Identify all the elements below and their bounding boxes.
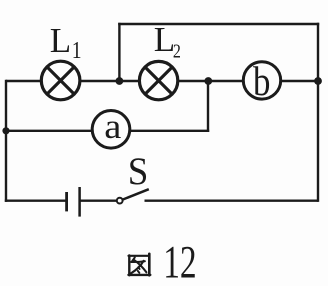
lamp L1: cross xyxy=(47,67,74,94)
meter b: circle xyxy=(243,62,280,99)
lamp L2: circle xyxy=(139,61,177,99)
wire: ammeter branch horizontal xyxy=(6,130,209,132)
switch S: lever arm xyxy=(123,189,149,199)
svg-text:a: a xyxy=(104,107,121,146)
wire: main horizontal (through L1, L2, b) xyxy=(6,80,318,82)
battery: short plate (negative) xyxy=(65,192,68,211)
meter a: circle xyxy=(92,111,130,149)
svg-text:b: b xyxy=(253,59,270,104)
svg-text:L: L xyxy=(154,20,175,59)
switch S: pivot open circle xyxy=(117,198,123,204)
svg-text:1: 1 xyxy=(72,36,82,63)
wire: battery to switch pivot xyxy=(80,199,117,201)
svg-text:S: S xyxy=(128,150,149,193)
junction dot: node at top-loop tap (left of L2) xyxy=(116,77,124,85)
caption: hanzi TU (figure) drawn as strokes xyxy=(129,254,151,275)
svg-text:12: 12 xyxy=(163,236,196,286)
svg-text:L: L xyxy=(50,21,71,60)
svg-text:2: 2 xyxy=(173,40,181,62)
wire: ammeter branch riser to main wire xyxy=(207,81,209,132)
wire: right vertical xyxy=(317,23,319,202)
lamp L2: cross xyxy=(145,67,172,94)
wire: top horizontal xyxy=(118,23,319,25)
junction dot: node at right vertical (right of b) xyxy=(314,77,322,85)
lamp L1: circle xyxy=(41,61,80,100)
wire: switch right contact to bottom-right corner xyxy=(145,199,319,201)
wire: bottom left to battery xyxy=(5,199,66,201)
junction dot: node right of L2 (ammeter tap) xyxy=(204,77,212,85)
wire: top-loop left vertical down to main wire xyxy=(118,23,120,81)
junction dot: node on left vertical (ammeter branch) xyxy=(2,127,9,134)
battery: long plate (positive) xyxy=(78,187,81,217)
wire: left vertical (battery negative riser) xyxy=(5,80,7,202)
